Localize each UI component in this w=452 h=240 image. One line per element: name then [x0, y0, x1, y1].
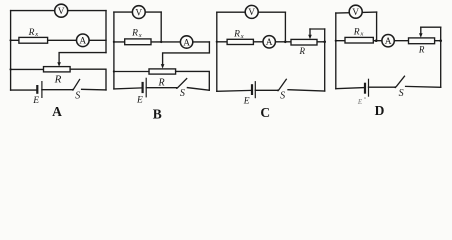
wire bottom right D [406, 85, 441, 88]
wire top C [217, 11, 286, 13]
wire ammeter to wiper B [163, 42, 210, 65]
svg-text:A: A [52, 104, 62, 119]
junction A left-row2 [10, 39, 12, 41]
battery E (circuit D) [365, 79, 369, 96]
junction B left-rheostat [113, 70, 115, 72]
svg-text:A: A [266, 38, 273, 48]
wire right rail D [440, 27, 442, 87]
wiper arrowhead C [308, 35, 312, 40]
wire top A [11, 10, 106, 12]
ammeter A (circuit D) [382, 35, 394, 48]
wire top D [336, 11, 377, 14]
wiper arrowhead B [161, 64, 165, 69]
switch S (circuit C) [277, 79, 286, 91]
junction C left-row2 [216, 41, 218, 43]
svg-text:R: R [233, 30, 240, 40]
voltmeter V (circuit A) [55, 4, 68, 17]
wire right rail C [324, 29, 326, 91]
wire row2 D [336, 40, 441, 42]
junction D rail-row2 [439, 39, 442, 42]
wire bottom left B [114, 88, 141, 89]
svg-text:S: S [399, 88, 404, 99]
switch S (circuit B) [176, 79, 187, 89]
svg-text:E: E [136, 95, 143, 105]
svg-text:x: x [138, 32, 142, 39]
junction B left-row2 [113, 41, 115, 43]
label Rx (circuit B) [131, 29, 142, 39]
svg-text:B: B [153, 106, 162, 121]
wire rheostat row left A [11, 68, 44, 70]
junction D v-drop row2 [375, 39, 378, 42]
svg-text:E: E [32, 96, 39, 106]
svg-text:C: C [260, 105, 270, 120]
svg-text:R: R [131, 29, 138, 39]
svg-text:R: R [54, 74, 62, 86]
switch S (circuit D) [394, 76, 404, 88]
resistor Rx (circuit B) [125, 39, 151, 45]
junction C rail-row2 [323, 41, 326, 44]
svg-text:A: A [79, 37, 86, 47]
wire row2 C [217, 41, 325, 43]
junction B v-drop row2 [160, 41, 162, 43]
ammeter A (circuit A) [77, 34, 90, 47]
battery E (circuit C) [252, 82, 255, 98]
wire bottom right A [82, 88, 106, 91]
wire rheostat right to bottom corner A [70, 69, 106, 90]
junction C v-drop row2 [284, 41, 287, 44]
battery E (circuit A) [37, 82, 42, 98]
svg-text:x: x [360, 31, 364, 38]
wire left rail A [10, 11, 12, 91]
voltmeter V (circuit D) [349, 5, 362, 18]
wire wiper hook D [421, 26, 441, 28]
svg-text:V: V [135, 8, 142, 18]
svg-text:V: V [352, 8, 359, 18]
svg-text:R: R [353, 27, 360, 37]
wiper arm D [420, 27, 422, 33]
wire bottom right B [187, 88, 209, 91]
wire bottom mid B [146, 87, 176, 89]
wire left rail C [216, 12, 218, 91]
wire bottom left C [217, 89, 251, 92]
resistor Rx (circuit C) [227, 39, 253, 44]
svg-text:S: S [75, 91, 80, 102]
label Rx (circuit A) [28, 28, 39, 38]
switch S (circuit A) [72, 80, 80, 91]
wire bottom left A [11, 89, 37, 91]
wire bottom mid A [42, 89, 72, 91]
svg-text:S: S [280, 90, 285, 101]
voltmeter V (circuit C) [245, 5, 258, 18]
wire right rail upper A [105, 11, 107, 53]
rheostat R (circuit B) [149, 69, 176, 74]
battery E (circuit B) [143, 78, 147, 97]
wire bottom mid D [369, 86, 395, 88]
wire row2 A [11, 39, 106, 41]
wire voltmeter drop C [284, 12, 286, 42]
junction A left-rheostat [10, 68, 12, 70]
wire voltmeter drop D [376, 12, 378, 41]
wire bottom left D [336, 88, 364, 89]
svg-text:V: V [248, 8, 255, 18]
wiper arm C [309, 29, 311, 35]
ammeter A (circuit B) [180, 36, 192, 49]
ammeter A (circuit C) [263, 36, 275, 49]
wire wiper tap A [59, 53, 106, 63]
wiper arrowhead D [419, 33, 423, 38]
wire voltmeter drop B [160, 12, 162, 42]
wire wiper hook C [310, 28, 325, 30]
wire rheostat row left B [114, 71, 149, 73]
svg-text:S: S [180, 88, 185, 99]
resistor Rx (circuit A) [19, 37, 48, 43]
wire top B [114, 11, 161, 13]
svg-text:R: R [28, 28, 35, 38]
svg-text:A: A [183, 38, 190, 48]
voltmeter V (circuit B) [132, 6, 145, 19]
svg-text:R: R [418, 45, 425, 55]
label Rx (circuit D) [353, 27, 364, 37]
rheostat R (circuit D) [409, 38, 435, 44]
svg-text:E: E [357, 98, 363, 106]
svg-text:x: x [34, 31, 38, 38]
wire rheostat right to bottom corner B [176, 71, 210, 90]
rheostat R (circuit A) [44, 67, 71, 72]
label Rx (circuit C) [233, 30, 244, 40]
wire left rail B [113, 12, 115, 89]
svg-text:x: x [240, 33, 244, 40]
svg-text:D: D [375, 103, 385, 118]
svg-text:E: E [243, 97, 250, 107]
wire bottom right C [288, 90, 325, 91]
svg-text:R: R [158, 77, 165, 88]
wire left rail D [335, 13, 337, 89]
wiper arrowhead A [57, 62, 61, 66]
wire bottom mid C [255, 89, 277, 91]
svg-text:V: V [58, 7, 65, 17]
svg-text:R: R [298, 46, 305, 56]
junction D left-row2 [335, 40, 337, 42]
wire row2 B [114, 41, 209, 43]
rheostat R (circuit C) [291, 39, 317, 45]
label E remnant (circuit D) [357, 97, 366, 106]
resistor Rx (circuit D) [345, 37, 373, 43]
svg-text:A: A [385, 37, 392, 47]
